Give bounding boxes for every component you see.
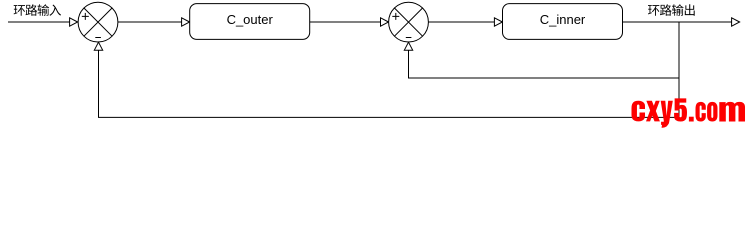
wire C_inner to loop output bbox=[623, 18, 740, 26]
block C_inner bbox=[503, 4, 623, 40]
summing junction S1 bbox=[78, 2, 118, 42]
wire C_outer to summing junction S2 bbox=[310, 18, 389, 26]
svg-text:C_inner: C_inner bbox=[540, 12, 586, 27]
wire inner feedback to S2 bbox=[404, 42, 679, 78]
wire S2 to C_inner bbox=[429, 18, 503, 26]
summing junction S2 bbox=[389, 2, 429, 42]
wire outer feedback to S1 bbox=[94, 42, 679, 117]
logo cxy5.com bbox=[631, 98, 745, 127]
wire S1 to C_outer bbox=[118, 18, 190, 26]
block C_outer bbox=[190, 4, 310, 40]
svg-text:C_outer: C_outer bbox=[227, 12, 274, 27]
label 环路输入 bbox=[14, 4, 61, 16]
wire feedback tap vertical bbox=[678, 22, 680, 117]
wire input to summing junction S1 bbox=[8, 18, 78, 26]
label 环路输出 bbox=[648, 4, 695, 16]
